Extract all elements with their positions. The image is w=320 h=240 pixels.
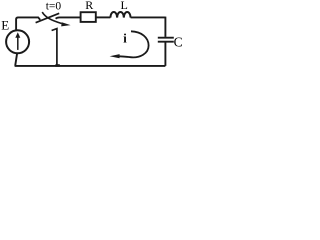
svg-text:R: R: [85, 0, 93, 12]
svg-text:E: E: [1, 17, 9, 32]
svg-text:L: L: [121, 0, 128, 12]
svg-text:i: i: [123, 31, 127, 45]
svg-text:t=0: t=0: [46, 0, 62, 12]
svg-text:C: C: [174, 34, 183, 49]
